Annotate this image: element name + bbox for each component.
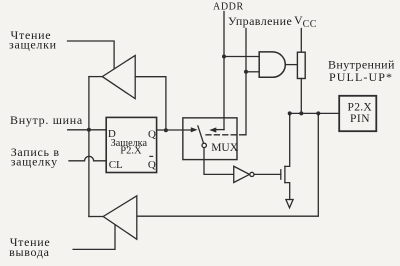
transistor Q1 gate bar	[280, 170, 282, 179]
and-gate U2	[259, 52, 285, 77]
svg-text:PULL-UP*: PULL-UP*	[329, 70, 393, 84]
wire drain lead	[285, 113, 290, 166]
wire MUX select dashed	[206, 134, 244, 136]
wire Q up to read-latch buffer input	[135, 77, 166, 131]
svg-text:P2.X: P2.X	[120, 146, 142, 157]
arrowhead Q (points right)	[191, 127, 198, 132]
latch U1 box	[106, 117, 156, 172]
svg-text:VCC: VCC	[294, 13, 317, 30]
node drain dot	[288, 111, 292, 115]
svg-text:ADDR: ADDR	[213, 2, 244, 13]
node control-AND junction dot	[244, 70, 248, 74]
wire VCC down to pull-up	[300, 29, 302, 53]
wire pull-up bottom to node	[300, 79, 302, 114]
node bus junction dot	[87, 128, 91, 132]
wire control vertical	[244, 29, 246, 135]
node ADDR-AND junction dot	[222, 55, 226, 59]
svg-text:Q: Q	[148, 159, 156, 171]
wire inverter to gate	[254, 173, 281, 175]
switch arm	[198, 126, 204, 143]
wire vertical bus line	[88, 77, 90, 217]
svg-text:PIN: PIN	[350, 113, 370, 125]
wire AND output to pull-up	[286, 64, 298, 66]
wire read-latch enable	[68, 41, 115, 69]
inverter U3	[234, 166, 250, 182]
svg-text:MUX: MUX	[211, 142, 239, 154]
node pull-up dot	[299, 111, 303, 115]
transistor Q1 channel	[284, 166, 286, 182]
buffer read-pin (points left)	[103, 196, 137, 240]
resistor pull-up R1	[297, 52, 305, 78]
wire read-pin enable	[73, 225, 115, 250]
svg-text:CL: CL	[109, 159, 123, 171]
ground	[286, 200, 293, 208]
svg-text:вывода: вывода	[9, 245, 50, 259]
buffer read-latch (tri-state, points left)	[102, 55, 135, 98]
wire ADDR arrow into MUX	[216, 129, 224, 131]
wire AND top input	[224, 56, 259, 58]
svg-text:Внутр. шина: Внутр. шина	[10, 113, 83, 127]
wire write-latch to CL with hop	[69, 156, 106, 161]
MUX box	[183, 118, 237, 160]
wire internal bus to D	[68, 129, 107, 131]
svg-text:Управление: Управление	[228, 14, 292, 28]
svg-text:Q: Q	[148, 128, 156, 140]
wire pin node horizontal	[290, 112, 340, 114]
pin box P2.X	[339, 96, 376, 131]
wire Q output to MUX	[157, 129, 192, 131]
label Q-bar overline	[149, 156, 153, 157]
svg-text:P2.X: P2.X	[348, 102, 373, 114]
wire buffer output stub to bus	[89, 76, 102, 78]
node Q junction dot	[164, 128, 168, 132]
arrowhead ADDR (points left)	[209, 127, 216, 132]
svg-text:защелки: защелки	[9, 38, 57, 52]
wire source lead	[285, 183, 290, 200]
svg-text:защелку: защелку	[11, 155, 58, 169]
inverter bubble	[250, 172, 254, 176]
wire read-pin down and across	[137, 113, 318, 216]
wire read-pin buffer output stub	[89, 216, 103, 218]
switch pole circle	[202, 143, 206, 147]
wire ADDR vertical	[223, 12, 225, 130]
wire AND bottom input	[246, 71, 259, 73]
node read-pin dot	[316, 111, 320, 115]
wire MUX output to inverter	[204, 148, 234, 175]
